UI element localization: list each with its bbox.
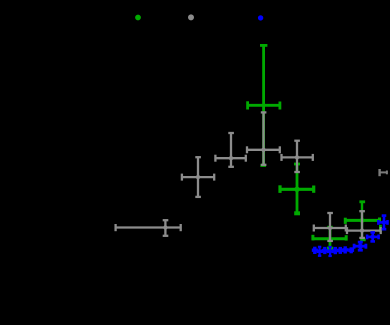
gray errorbar point Y2 bbox=[181, 157, 215, 198]
blue errorbar point b6 bbox=[338, 248, 343, 254]
gray errorbar point Y3 bbox=[215, 133, 247, 168]
blue errorbar point b11 bbox=[378, 215, 388, 229]
green errorbar point G3 bbox=[312, 227, 347, 249]
gray errorbar point Y1 bbox=[115, 220, 181, 236]
legend marker green bbox=[135, 15, 141, 21]
blue errorbar point b4 bbox=[327, 247, 333, 257]
gray errorbar point Y5 bbox=[281, 140, 314, 172]
gray errorbar point Y7 bbox=[346, 211, 381, 239]
blue errorbar point b1 bbox=[312, 247, 317, 253]
blue errorbar point b5 bbox=[333, 248, 338, 254]
blue errorbar point b3 bbox=[322, 248, 327, 254]
green errorbar point G1 bbox=[247, 45, 281, 166]
legend marker gray bbox=[188, 14, 194, 20]
blue errorbar point b9 bbox=[354, 242, 367, 251]
legend marker blue bbox=[258, 15, 263, 20]
gray errorbar point Y4 bbox=[246, 112, 280, 165]
green errorbar point G5 clipped at right edge bbox=[379, 225, 382, 232]
green errorbar point G4 bbox=[345, 202, 380, 241]
gray errorbar point Y8 clipped at right edge bbox=[380, 169, 388, 176]
blue errorbar point b2 bbox=[317, 246, 322, 256]
blue errorbar point b10 bbox=[367, 232, 380, 242]
gray errorbar point Y6 bbox=[313, 213, 346, 242]
green errorbar point G2 bbox=[279, 164, 315, 214]
blue errorbar point b7 bbox=[343, 247, 348, 253]
blue errorbar point b8 bbox=[349, 248, 354, 253]
